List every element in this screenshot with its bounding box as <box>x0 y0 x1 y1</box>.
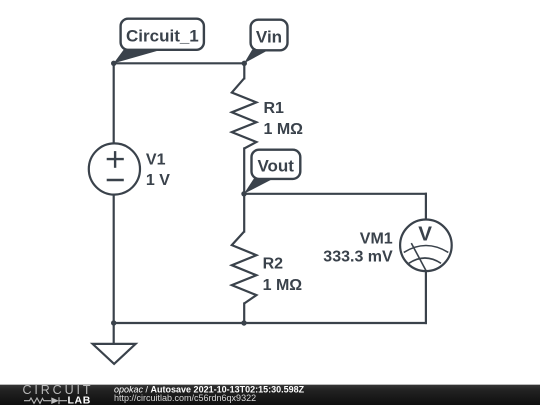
node at Vin <box>242 61 247 66</box>
node Vout flag <box>244 150 300 194</box>
node ground junction <box>111 320 116 325</box>
node R2 bottom junction <box>241 320 246 325</box>
wire ground lead <box>113 323 115 344</box>
wire R1 top lead <box>243 63 245 78</box>
footer bar <box>0 384 540 405</box>
svg-text:1 MΩ: 1 MΩ <box>263 277 303 294</box>
label V1 value <box>146 151 170 189</box>
footer logo resistor-diode <box>24 397 67 404</box>
resistor R1 <box>232 78 257 148</box>
label R2 value <box>263 256 303 295</box>
resistor R2 <box>232 232 257 304</box>
node Circuit_1 flag <box>114 19 204 64</box>
wire voltmeter bottom lead <box>425 271 427 323</box>
voltage source V1 <box>89 143 140 194</box>
junction dots <box>111 61 247 326</box>
svg-text:V: V <box>418 223 432 246</box>
wire R2 top lead <box>243 194 245 232</box>
svg-text:Vout: Vout <box>257 157 294 176</box>
wire left vertical upper <box>113 63 115 144</box>
svg-text:V1: V1 <box>146 151 166 168</box>
svg-text:http://circuitlab.com/c56rdn6q: http://circuitlab.com/c56rdn6qx9322 <box>114 393 256 403</box>
wire bottom rail <box>114 322 426 324</box>
svg-text:R2: R2 <box>263 256 284 273</box>
wire left vertical lower <box>113 195 115 324</box>
svg-text:VM1: VM1 <box>360 230 393 247</box>
svg-text:Circuit_1: Circuit_1 <box>126 27 199 46</box>
ground <box>93 344 136 364</box>
svg-text:Vin: Vin <box>256 27 282 46</box>
node at Vout <box>241 191 246 196</box>
voltmeter VM1 <box>400 220 452 272</box>
label R1 value <box>264 100 304 138</box>
svg-text:1 V: 1 V <box>146 172 170 189</box>
svg-text:R1: R1 <box>264 100 285 117</box>
svg-text:LAB: LAB <box>68 394 91 405</box>
svg-text:333.3 mV: 333.3 mV <box>323 248 393 265</box>
node Vin flag <box>244 20 287 64</box>
svg-text:1 MΩ: 1 MΩ <box>264 121 304 138</box>
wire R1 to Vout node <box>243 149 245 194</box>
wire Vout to voltmeter <box>244 193 426 195</box>
wire top horizontal <box>114 62 245 64</box>
wire R2 bottom lead <box>243 304 245 324</box>
wire voltmeter top lead <box>425 194 427 219</box>
node at Circuit_1 <box>111 61 116 66</box>
label VM1 value <box>323 230 393 265</box>
